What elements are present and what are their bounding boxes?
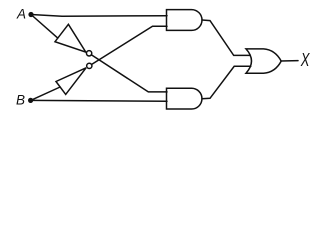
AND gate 2 (bottom) <box>167 88 202 109</box>
node A junction dot <box>28 12 33 17</box>
wire top AND output to OR gate input 1 <box>202 20 250 55</box>
inverter 1 output bubble <box>86 51 91 56</box>
wire A to inverter 1 input <box>31 15 58 39</box>
wire bottom AND output to OR gate input 2 <box>202 66 251 98</box>
wire OR gate output to X <box>281 60 298 62</box>
inverter 2 (NOT gate, B-bar) triangle <box>56 68 86 95</box>
wire B to bottom AND gate input 2 <box>31 99 167 102</box>
wire inverter 2 output (B-bar) to top AND gate input 2 <box>92 26 168 64</box>
wire A to top AND gate input 1 <box>31 15 167 17</box>
inverter 1 (NOT gate, A-bar) triangle <box>55 24 86 52</box>
svg-text:A: A <box>16 7 26 22</box>
wire B to inverter 2 input <box>31 87 60 100</box>
svg-text:B: B <box>16 93 25 108</box>
node B junction dot <box>28 98 33 103</box>
svg-text:X: X <box>300 50 311 71</box>
inverter 2 output bubble <box>87 63 92 68</box>
AND gate 1 (top) <box>167 10 202 31</box>
wire inverter 1 output (A-bar) to bottom AND gate input 1 <box>91 55 167 92</box>
OR gate <box>246 49 281 73</box>
